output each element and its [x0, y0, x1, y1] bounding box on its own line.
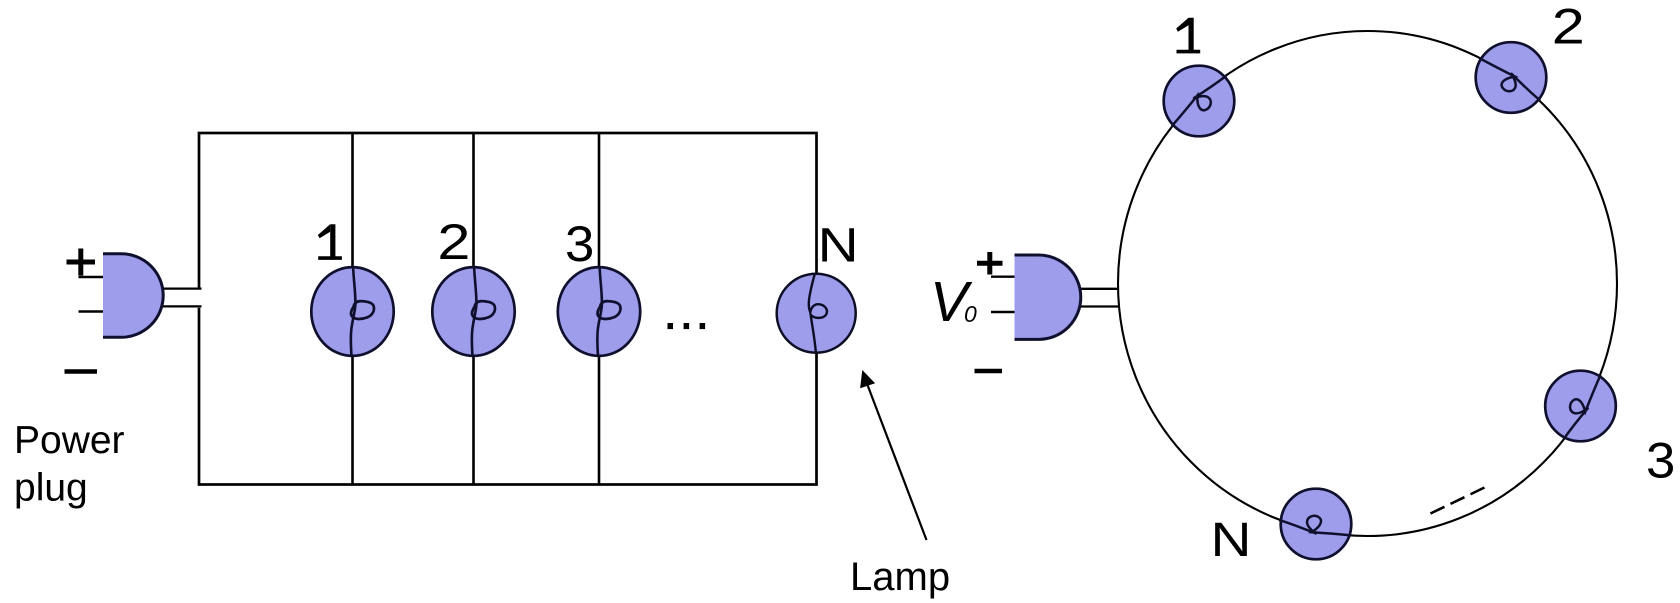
svg-text:plug: plug: [14, 467, 88, 510]
svg-text:2: 2: [437, 214, 470, 270]
svg-text:3: 3: [1646, 433, 1675, 489]
svg-text:2: 2: [1552, 0, 1585, 55]
svg-text:N: N: [1211, 514, 1252, 567]
svg-text:3: 3: [565, 216, 594, 272]
svg-text:Lamp: Lamp: [850, 555, 950, 599]
svg-text:0: 0: [964, 301, 977, 327]
svg-text:Power: Power: [14, 419, 125, 462]
svg-text:N: N: [818, 219, 859, 272]
